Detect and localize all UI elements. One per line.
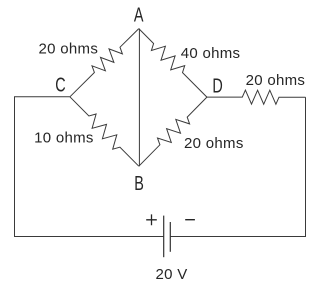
svg-text:20 ohms: 20 ohms (184, 135, 244, 152)
wire: C left to outer loop, down left side, along bottom to battery + plate (15, 97, 164, 237)
battery positive plate (long) (163, 216, 165, 258)
svg-text:20 ohms: 20 ohms (39, 40, 99, 57)
resistor 40 ohms (A to D) (139, 29, 207, 98)
svg-text:C: C (55, 73, 65, 96)
resistor 20 ohms (C to A) (70, 29, 139, 97)
resistor 10 ohms (C to B) (70, 97, 139, 166)
svg-text:40 ohms: 40 ohms (181, 45, 241, 62)
battery negative plate (short) (169, 222, 171, 252)
plus sign (146, 214, 157, 225)
resistor 20 ohms (B to D) (139, 97, 207, 166)
minus sign (185, 219, 195, 221)
svg-text:A: A (134, 3, 144, 26)
wire: bridge from node A to node B (138, 29, 140, 167)
wire: battery - plate along bottom, up right side to top-right corner (170, 97, 305, 236)
svg-text:10 ohms: 10 ohms (34, 129, 94, 146)
svg-text:20 ohms: 20 ohms (246, 72, 306, 89)
svg-text:B: B (134, 172, 144, 195)
resistor 20 ohms (D to right edge) (207, 90, 306, 104)
svg-text:20 V: 20 V (156, 266, 188, 283)
svg-text:D: D (212, 74, 222, 97)
